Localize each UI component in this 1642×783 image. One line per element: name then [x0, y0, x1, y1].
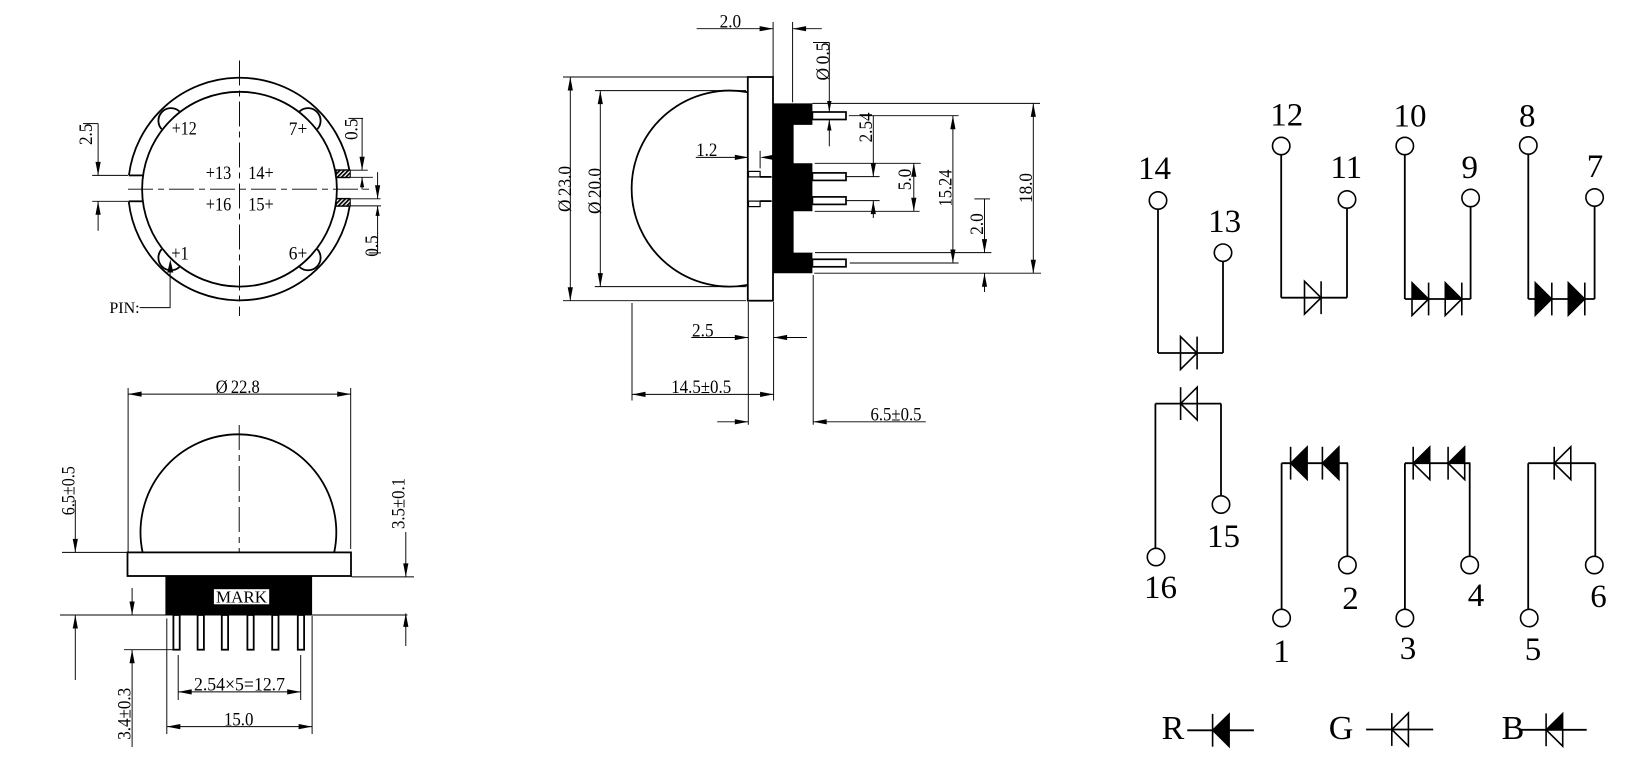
svg-text:2.54: 2.54 [856, 112, 877, 142]
wire pin9 vertical [1470, 207, 1472, 299]
svg-text:2.54×5=12.7: 2.54×5=12.7 [194, 675, 285, 696]
svg-text:15.24: 15.24 [936, 169, 957, 206]
svg-text:8: 8 [1519, 98, 1536, 134]
top view outer circle (package flange outline) [129, 78, 350, 176]
svg-text:3.4±0.3: 3.4±0.3 [115, 688, 136, 740]
svg-text:5.0: 5.0 [895, 169, 916, 191]
svg-text:+1: +1 [171, 243, 189, 264]
svg-text:PIN:: PIN: [109, 300, 139, 317]
svg-text:2.0: 2.0 [720, 12, 742, 33]
side view pin row 2 [812, 173, 846, 181]
diode D12-11 (G, open, pointing right) [1305, 281, 1322, 314]
diode D1-2 second (R, filled, pointing left) [1322, 447, 1339, 480]
svg-text:10: 10 [1394, 98, 1427, 134]
svg-text:+12: +12 [172, 119, 197, 140]
wire pin15 vertical [1220, 404, 1222, 496]
svg-text:2: 2 [1342, 581, 1359, 617]
svg-text:4: 4 [1468, 578, 1485, 614]
svg-text:+13: +13 [206, 163, 232, 184]
dimension 6.5+-0.5 lead length (extension lines, arrows, value label) [812, 275, 814, 425]
svg-text:7+: 7+ [289, 119, 308, 140]
dimension 5.0 middle step (arrows, value label) [913, 163, 915, 211]
wire 1-2 horizontal [1282, 462, 1348, 464]
MARK label box [213, 589, 270, 606]
dimension 0.5 lower tab (value label, arrows) [350, 205, 381, 207]
left key notch edges [129, 174, 143, 176]
wire pin7 vertical [1594, 206, 1596, 299]
svg-text:14.5±0.5: 14.5±0.5 [671, 377, 731, 398]
dimension 2.5 left notch (value label, extension lines, arrows) [92, 174, 128, 176]
extension line body top [812, 102, 1040, 104]
dimension dia 20.0 dome (extension lines, arrows, value label) [595, 90, 746, 92]
svg-text:18.0: 18.0 [1016, 173, 1037, 203]
dimension 1.2 tab depth (arrows, value label) [696, 156, 748, 158]
index bump lower-left (near +1) [158, 249, 179, 270]
pin 3 terminal [1396, 609, 1413, 626]
dimension 2.0 standoff (arrows, value label) [974, 198, 990, 200]
wire pin8 vertical [1527, 154, 1529, 299]
wire 14-13 horizontal [1158, 352, 1223, 354]
svg-text:15: 15 [1207, 519, 1240, 555]
wire 10-9 horizontal [1405, 298, 1471, 300]
legend G diode symbol (open) [1366, 729, 1433, 731]
svg-text:5: 5 [1525, 632, 1542, 668]
extension line above pin row 4 [815, 252, 991, 254]
svg-text:B: B [1502, 710, 1525, 747]
pin 9 terminal [1462, 189, 1479, 206]
wire pin2 vertical [1346, 463, 1348, 556]
svg-text:7: 7 [1587, 149, 1604, 185]
dimension 2.5 flange thickness (extension lines, arrows, value label) [747, 302, 749, 425]
svg-text:15+: 15+ [248, 194, 274, 215]
diode D3-4 first (B, half-filled, pointing left) [1413, 447, 1430, 463]
pin 4 terminal [1461, 556, 1478, 573]
dimension dia 22.8 (extension lines, arrows, value label) [127, 388, 129, 552]
wire 3-4 horizontal [1405, 462, 1471, 464]
front view black body [165, 576, 312, 615]
side view pin row 3 [812, 197, 846, 205]
dimension 2.0 top (extension lines, arrows, value label) [772, 22, 774, 77]
svg-text:6+: 6+ [289, 243, 308, 264]
diode D8-7 second (R, filled, pointing right) [1568, 283, 1585, 316]
wire 16-15 horizontal [1155, 403, 1221, 405]
legend R diode symbol (filled) [1187, 729, 1254, 731]
svg-text:2.5: 2.5 [692, 320, 714, 341]
diode D16-15 (G, open, pointing left) [1181, 387, 1198, 420]
pin 16 terminal [1147, 548, 1164, 565]
wire pin12 vertical [1280, 155, 1282, 298]
svg-text:0.5: 0.5 [341, 119, 362, 141]
side view pin row 1 [812, 112, 846, 120]
index tab lower (hatched) [336, 199, 350, 206]
top view vertical centerline [239, 61, 241, 317]
svg-text:MARK: MARK [216, 587, 268, 606]
index bump upper-left (near +12) [158, 108, 179, 129]
wire pin6 vertical [1594, 463, 1596, 556]
dimension 3.5+-0.1 right (arrows, value label) [352, 576, 415, 578]
extension lines middle step edges [815, 162, 921, 164]
wire 8-7 horizontal [1528, 298, 1594, 300]
svg-text:Ø 23.0: Ø 23.0 [555, 166, 576, 212]
side view epoxy dome outline [632, 91, 748, 287]
front view vertical centerline [238, 425, 240, 574]
dimension 3.4+-0.3 (arrows, value label) [131, 588, 133, 615]
diode D1-2 first (R, filled, pointing left) [1291, 447, 1308, 480]
diode D5-6 (G, open, pointing left) [1554, 447, 1571, 480]
wire pin10 vertical [1404, 155, 1406, 299]
side view flange [748, 77, 773, 301]
svg-text:Ø 22.8: Ø 22.8 [216, 377, 260, 398]
top view horizontal centerline [128, 188, 373, 190]
extension lines pin2 pin3 centers [846, 176, 880, 178]
wire pin3 vertical [1404, 463, 1406, 609]
svg-text:14: 14 [1138, 151, 1171, 187]
top view inner circle (lens base) [142, 92, 337, 287]
side view pin row 4 [812, 259, 846, 267]
front view pins 1-6 [173, 615, 179, 650]
wire pin11 vertical [1346, 208, 1348, 298]
side view black body with steps [773, 103, 812, 273]
pin 12 terminal [1273, 137, 1290, 154]
extension line pin4 center [850, 262, 959, 264]
svg-text:15.0: 15.0 [224, 709, 254, 730]
wire pin16 vertical [1154, 404, 1156, 549]
wire pin14 vertical [1157, 209, 1159, 353]
svg-text:14+: 14+ [248, 163, 274, 184]
extension line body bottom seating plane [814, 272, 1041, 274]
index tab upper (hatched) [336, 170, 350, 177]
diode D3-4 second (B, half-filled, pointing left) [1448, 447, 1465, 463]
dimension dia 23.0 flange (extension lines, arrows, value label) [563, 76, 748, 78]
svg-text:G: G [1329, 710, 1354, 747]
legend B diode symbol (half-filled) [1521, 729, 1587, 731]
side view index tab upper [749, 171, 761, 177]
svg-text:6.5±0.5: 6.5±0.5 [871, 405, 922, 426]
svg-text:Ø 20.0: Ø 20.0 [585, 168, 606, 214]
svg-text:2.0: 2.0 [967, 213, 988, 235]
svg-text:6: 6 [1590, 579, 1607, 615]
svg-text:0.5: 0.5 [362, 235, 383, 257]
svg-text:Ø 0.5: Ø 0.5 [813, 43, 834, 81]
diode D10-9 first (B, half-filled, pointing right) [1412, 283, 1429, 299]
right notch edge lines [335, 169, 349, 171]
pin 14 terminal [1149, 192, 1166, 209]
svg-text:3.5±0.1: 3.5±0.1 [389, 478, 410, 529]
wire 5-6 horizontal [1528, 462, 1595, 464]
dimension 14.5+-0.5 (extension lines, arrows, value label) [631, 303, 633, 401]
dimension 18.0 overall (arrows, value label) [1032, 103, 1034, 273]
svg-text:9: 9 [1462, 150, 1479, 186]
wire pin13 vertical [1222, 261, 1224, 353]
extension line pin1 center [849, 115, 959, 117]
svg-text:11: 11 [1330, 150, 1362, 186]
pin 15 terminal [1212, 496, 1229, 513]
body seating plane line [60, 614, 407, 616]
pin 13 terminal [1214, 244, 1231, 261]
diode D8-7 first (R, filled, pointing right) [1535, 283, 1552, 316]
pin 7 terminal [1586, 189, 1603, 206]
dimension 2.54 middle pins (arrows, value label) [872, 116, 874, 177]
pin 10 terminal [1396, 137, 1413, 154]
svg-text:12: 12 [1270, 97, 1303, 133]
pin 11 terminal [1338, 191, 1355, 208]
svg-text:3: 3 [1400, 631, 1417, 667]
dimension 6.5+-0.5 left (arrows, value label) [62, 551, 127, 553]
svg-text:6.5±0.5: 6.5±0.5 [59, 466, 80, 515]
pin 2 terminal [1339, 556, 1356, 573]
index bump lower-right (near 6+) [300, 249, 321, 270]
svg-text:+16: +16 [206, 194, 232, 215]
svg-text:16: 16 [1144, 570, 1177, 606]
wire 12-11 horizontal [1281, 297, 1347, 299]
wire pin1 vertical [1281, 463, 1283, 609]
dimension 2.54x5=12.7 pin pitch (extension lines, arrows, value label) [177, 655, 179, 700]
dimension 0.5 upper tab (value label, arrows) [350, 169, 367, 171]
svg-text:13: 13 [1208, 204, 1241, 240]
diode D10-9 second (B, half-filled, pointing right) [1445, 283, 1462, 299]
wire pin4 vertical [1469, 463, 1471, 556]
diode D14-13 (G, open, pointing right) [1181, 337, 1198, 370]
svg-text:R: R [1162, 710, 1185, 747]
index bump upper-right (near 7+) [300, 108, 321, 129]
front view epoxy dome outline [141, 434, 337, 552]
dimension 15.24 pin1-pin4 (arrows, value label) [952, 116, 954, 263]
dimension dia 0.5 pin (arrows, value label) [813, 42, 829, 44]
svg-text:1: 1 [1273, 634, 1290, 670]
side view index tab lower [749, 201, 761, 207]
svg-text:1.2: 1.2 [696, 140, 717, 161]
front view flange [128, 552, 352, 576]
pin 8 terminal [1520, 137, 1537, 154]
pin 1 terminal [1273, 609, 1290, 626]
wire pin5 vertical [1527, 463, 1529, 609]
dimension 15.0 body width (extension lines, arrows, value label) [166, 618, 168, 734]
pin 6 terminal [1586, 556, 1603, 573]
svg-text:2.5: 2.5 [76, 124, 97, 146]
pin 5 terminal [1521, 609, 1538, 626]
